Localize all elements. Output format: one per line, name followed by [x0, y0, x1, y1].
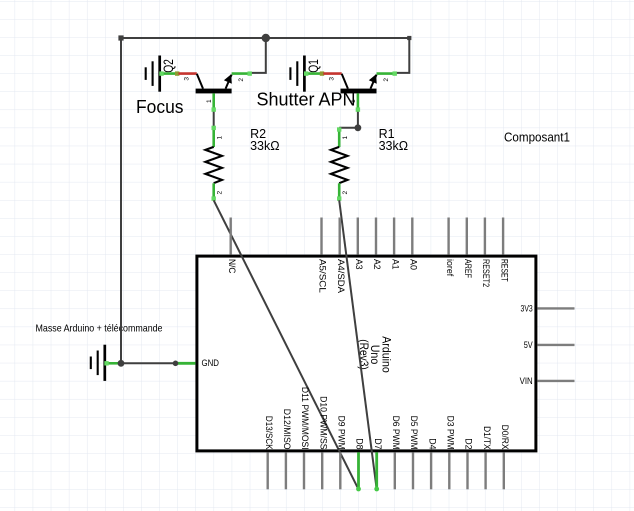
- endpoint square olive Q2: [175, 71, 179, 75]
- svg-text:33kΩ: 33kΩ: [250, 139, 280, 153]
- bend dot Q1 collector jog: [355, 124, 362, 131]
- svg-text:A0: A0: [408, 259, 419, 270]
- wire left vertical: [120, 38, 122, 363]
- svg-text:D8: D8: [354, 438, 365, 449]
- svg-text:VIN: VIN: [520, 376, 533, 387]
- wire R2 to D8 diagonal: [214, 200, 359, 489]
- endpoint square Q2 collector: [212, 107, 216, 111]
- svg-text:3V3: 3V3: [521, 304, 533, 315]
- svg-text:D0/RX: D0/RX: [499, 425, 510, 451]
- lead ground GND1 green: [106, 362, 122, 365]
- svg-text:D13/SCK: D13/SCK: [263, 416, 274, 450]
- svg-text:2: 2: [216, 191, 223, 195]
- pin D7 green: [375, 452, 378, 489]
- label Arduino Uno (Rev3): [357, 336, 394, 373]
- svg-text:D2: D2: [463, 438, 474, 449]
- svg-text:3: 3: [183, 77, 190, 81]
- bend dot GND wire right: [173, 361, 179, 367]
- endpoint square Q1 emitter: [393, 71, 397, 75]
- svg-text:D12/MISO: D12/MISO: [281, 409, 292, 450]
- lead Q1 base green: [305, 72, 323, 75]
- endpoint square Q2 emitter: [248, 71, 252, 75]
- endpoint square olive Q1: [320, 71, 324, 75]
- top pin labels: [226, 259, 509, 294]
- svg-text:5V: 5V: [524, 340, 534, 351]
- endpoint square R1 pin2: [337, 196, 341, 200]
- svg-text:Focus: Focus: [136, 97, 184, 117]
- wire ground to GND pin: [121, 362, 176, 364]
- lead Q1 emitter green: [377, 72, 396, 75]
- svg-text:A4/SDA: A4/SDA: [335, 259, 346, 294]
- svg-text:Q1: Q1: [306, 59, 321, 73]
- endpoint square R1 pin1: [337, 127, 341, 131]
- svg-text:A5/SCL: A5/SCL: [317, 259, 328, 293]
- endpoint square on ground bar Q1: [304, 71, 308, 75]
- bottom pin stubs: [268, 452, 504, 489]
- svg-text:RESET2: RESET2: [480, 259, 491, 287]
- svg-text:D5 PWM: D5 PWM: [408, 416, 419, 450]
- endpoint square on ground bar GND1: [104, 361, 108, 365]
- GND pin lead: [176, 362, 196, 365]
- svg-text:GND: GND: [202, 358, 220, 369]
- svg-text:Composant1: Composant1: [504, 130, 570, 145]
- svg-text:A2: A2: [371, 259, 382, 270]
- endpoint square R2 pin1: [212, 126, 216, 130]
- right pin stubs: [537, 308, 574, 381]
- resistor R1: [331, 128, 348, 201]
- ground symbol GND1 masse: [91, 345, 105, 381]
- wire Q2 collector to R2: [213, 111, 215, 126]
- svg-text:D7: D7: [372, 438, 383, 449]
- wire R1 to D7 diagonal: [339, 200, 377, 489]
- svg-text:A1: A1: [389, 259, 400, 270]
- svg-text:D6 PWM: D6 PWM: [390, 416, 401, 450]
- svg-text:2: 2: [238, 78, 245, 82]
- bend dot GND wire left: [118, 360, 125, 367]
- corner square top-left: [118, 35, 123, 40]
- svg-text:Masse Arduino + télécommande: Masse Arduino + télécommande: [36, 323, 163, 335]
- right pin labels: [520, 304, 534, 388]
- wire Q1 collector jog to R1: [339, 111, 358, 128]
- endpoint dot D7: [374, 487, 379, 492]
- wire red Q1 base: [323, 72, 341, 75]
- svg-text:D3 PWM: D3 PWM: [445, 416, 456, 450]
- Arduino Uno U1 body: [197, 256, 536, 451]
- svg-text:D11 PWM/MOSI: D11 PWM/MOSI: [299, 387, 310, 450]
- wire junction drop to Q2 emitter: [250, 38, 266, 73]
- wire top right drop to Q1 emitter: [396, 38, 409, 73]
- lead Q2 emitter green: [232, 72, 251, 75]
- resistor R2: [205, 126, 222, 200]
- svg-text:3: 3: [328, 77, 335, 81]
- lead Q1 collector green: [357, 93, 360, 110]
- junction dot top: [262, 34, 270, 42]
- svg-text:D4: D4: [426, 438, 437, 449]
- svg-text:ioref: ioref: [444, 259, 455, 277]
- top pin stubs: [231, 218, 503, 255]
- svg-text:2: 2: [383, 78, 390, 82]
- svg-text:Shutter APN: Shutter APN: [257, 90, 356, 110]
- transistor Q1: [341, 74, 377, 94]
- svg-text:Q2: Q2: [161, 59, 176, 73]
- transistor Q2: [196, 74, 232, 94]
- wire top horizontal: [121, 37, 409, 39]
- lead Q2 collector green: [212, 93, 215, 110]
- svg-text:D10 PWM/SS: D10 PWM/SS: [317, 396, 328, 450]
- endpoint dot D8: [356, 487, 361, 492]
- corner square top-right: [407, 36, 411, 40]
- svg-text:AREF: AREF: [462, 259, 473, 278]
- svg-text:1: 1: [342, 136, 349, 140]
- lead Q2 base green: [161, 72, 179, 75]
- ground symbol at Q2: [146, 56, 160, 92]
- svg-text:33kΩ: 33kΩ: [379, 139, 409, 153]
- svg-text:2: 2: [342, 191, 349, 195]
- endpoint square Q1 collector: [356, 107, 360, 111]
- bottom pin labels: [263, 387, 510, 450]
- svg-text:N/C: N/C: [226, 259, 237, 274]
- svg-text:A3: A3: [353, 259, 364, 270]
- svg-text:1: 1: [216, 136, 223, 140]
- pin D8 green: [357, 452, 360, 489]
- svg-text:D1/TX: D1/TX: [481, 426, 492, 450]
- endpoint square R2 pin2: [212, 196, 216, 200]
- wire red Q2 base: [179, 72, 197, 75]
- svg-text:D9 PWM: D9 PWM: [336, 416, 347, 450]
- ground symbol at Q1: [290, 56, 304, 92]
- endpoint square on ground bar Q2: [159, 71, 163, 75]
- svg-text:RESET: RESET: [498, 259, 509, 282]
- svg-text:1: 1: [206, 99, 213, 103]
